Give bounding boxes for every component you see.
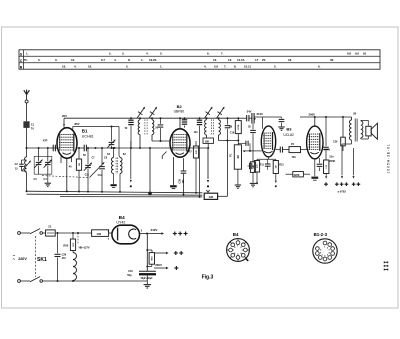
- resistor P2: [289, 147, 301, 159]
- IFT2 primary coil S6: [205, 118, 207, 138]
- capacitor C29: [55, 233, 67, 281]
- label UY42: [116, 221, 125, 225]
- tube B2 envelope: [170, 129, 190, 157]
- label C3: [34, 178, 38, 181]
- capacitor C22: [278, 117, 284, 130]
- P1 wiper arrow: [243, 150, 251, 152]
- code a-9782: [338, 189, 347, 193]
- label C31: [127, 270, 153, 280]
- svg-text:C16: C16: [230, 132, 235, 135]
- svg-text:B4: B4: [119, 215, 125, 220]
- svg-text:200K: 200K: [329, 160, 335, 163]
- label 220V: [13, 253, 47, 263]
- IFT1 right capacitor C12: [158, 118, 164, 141]
- wire wiper to triode grid: [250, 150, 262, 152]
- bus junction blob: [148, 192, 152, 196]
- label UBF80: [174, 109, 185, 113]
- oscillator trimmer C8: [107, 126, 115, 149]
- svg-text:8.: 8.: [128, 58, 131, 62]
- speaker: [366, 123, 378, 139]
- svg-text:85V: 85V: [75, 122, 80, 126]
- IFT2 left capacitor C15: [194, 117, 203, 196]
- capacitor C17: [238, 115, 252, 121]
- svg-text:1005H-3E-61: 1005H-3E-61: [387, 143, 391, 173]
- svg-text:~: ~: [13, 257, 16, 262]
- capacitor C1: [23, 121, 34, 130]
- mains terminal top: [18, 232, 30, 235]
- IFT1 core: [145, 119, 147, 134]
- triode cathode resistor R11: [254, 159, 259, 184]
- resistor R27: [92, 230, 112, 237]
- label 50 IFT1: [125, 127, 128, 130]
- svg-text:6.7: 6.7: [101, 58, 105, 62]
- arrow tap 3: [147, 263, 168, 269]
- IFT1 left capacitor C11: [128, 118, 133, 148]
- svg-text:B1-2-3: B1-2-3: [314, 232, 328, 237]
- variable capacitor C7a: [84, 147, 92, 192]
- svg-text:220V: 220V: [18, 257, 27, 261]
- pentode load resistor R16: [324, 151, 329, 179]
- svg-text:4.: 4.: [114, 58, 117, 62]
- svg-text:470K: 470K: [237, 124, 240, 130]
- decoupling capacitor C26: [341, 116, 346, 151]
- IFT2 trimmers: [205, 107, 225, 119]
- oscillator coil S2: [111, 147, 117, 187]
- variable capacitor C6: [44, 147, 52, 183]
- arrow tap 2: [147, 250, 168, 254]
- svg-text:220K: 220K: [294, 174, 300, 177]
- svg-text:10.11: 10.11: [244, 65, 251, 69]
- tube B4 rectifier: [112, 225, 140, 244]
- svg-text:15K: 15K: [205, 140, 210, 143]
- label socket B1-2-3: [314, 232, 328, 237]
- svg-text:a-9782: a-9782: [338, 189, 347, 193]
- table row C numbers: [24, 58, 335, 62]
- svg-text:16.: 16.: [88, 65, 92, 69]
- trimmer C2: [15, 160, 27, 171]
- cathode capacitor C24: [317, 158, 323, 171]
- socket B4 view: [227, 239, 250, 262]
- secondary return: [352, 148, 354, 179]
- label C4: [44, 178, 48, 181]
- IFT1 secondary coil S5: [151, 117, 154, 141]
- svg-text:19.20.: 19.20.: [149, 58, 157, 62]
- wire fuse to B4: [55, 232, 91, 234]
- label R11: [260, 163, 265, 166]
- svg-text:47n: 47n: [62, 257, 67, 260]
- IFT1 trimmers: [137, 107, 157, 119]
- svg-text:240V: 240V: [324, 148, 330, 151]
- tube B3 pentode: [307, 126, 323, 159]
- capacitor C19 chain: [250, 123, 256, 161]
- switch link dashed: [35, 236, 37, 277]
- svg-text:C31: C31: [128, 270, 133, 273]
- label C16: [230, 132, 235, 135]
- gang coupling dashed: [42, 176, 90, 178]
- svg-text:10n: 10n: [194, 131, 199, 134]
- svg-text:HB=127V: HB=127V: [79, 247, 90, 250]
- table row S numbers: [26, 52, 367, 56]
- row label R: [20, 65, 23, 69]
- svg-text:C26: C26: [333, 140, 338, 143]
- svg-text:50µ: 50µ: [127, 274, 132, 277]
- label C8: [104, 156, 108, 159]
- volume potentiometer P1: [229, 141, 241, 170]
- svg-text:20V: 20V: [62, 114, 67, 118]
- resistor R2: [69, 147, 82, 191]
- mains bottom wire: [57, 280, 148, 282]
- chassis ground PSU: [144, 281, 152, 288]
- mains switch bottom: [30, 277, 58, 283]
- svg-text:5.: 5.: [38, 58, 41, 62]
- ground P1: [235, 169, 241, 188]
- svg-text:1.: 1.: [141, 58, 144, 62]
- svg-text:15n: 15n: [329, 156, 334, 159]
- row label C: [20, 59, 23, 63]
- svg-text:1M: 1M: [79, 163, 81, 166]
- svg-text:R26: R26: [63, 243, 68, 247]
- svg-text:720: 720: [292, 156, 297, 159]
- triode cathode node: [257, 157, 276, 159]
- resistor R13: [273, 159, 278, 187]
- wire C1 to node A: [26, 128, 28, 148]
- node A junction: [26, 147, 28, 149]
- label P2: [291, 143, 295, 146]
- capacitor C4 grid: [43, 138, 57, 151]
- svg-text:UCL82: UCL82: [283, 133, 294, 137]
- svg-text:7.: 7.: [224, 65, 227, 69]
- tap label HB 127V: [78, 233, 90, 250]
- svg-text:C30: C30: [178, 178, 181, 183]
- tuning gang frame: [34, 156, 52, 174]
- svg-text:47P: 47P: [43, 138, 48, 142]
- svg-text:9.: 9.: [318, 65, 321, 69]
- svg-text:9.0: 9.0: [355, 52, 359, 56]
- arrow 210V out: [147, 228, 164, 235]
- pickup socket GR: [204, 193, 217, 199]
- label UCH81: [82, 135, 94, 139]
- label S3: [123, 153, 127, 156]
- wire IFT1 to B2 grid: [152, 140, 170, 142]
- mains switch top: [30, 229, 46, 235]
- svg-text:B3: B3: [286, 127, 292, 132]
- svg-text:Fig.3: Fig.3: [202, 274, 214, 280]
- screen resistor R7: [193, 141, 198, 192]
- label UCL82: [283, 133, 294, 137]
- tone capacitor C25: [323, 117, 335, 163]
- variable capacitor C7: [90, 148, 105, 192]
- svg-text:10n: 10n: [182, 179, 185, 184]
- IFT1 primary coil S4: [138, 117, 141, 148]
- svg-text:C1: C1: [31, 122, 35, 126]
- svg-text:75.: 75.: [24, 58, 28, 62]
- IFT2 right capacitor C16: [225, 118, 231, 140]
- cathode bypass capacitor C27: [248, 163, 255, 169]
- svg-text:7.: 7.: [221, 52, 224, 56]
- label 24V: [247, 110, 252, 114]
- socket B1-2-3 view: [313, 239, 337, 263]
- svg-text:1.: 1.: [160, 65, 163, 69]
- label S2: [107, 153, 111, 156]
- oscillator feed: [119, 127, 120, 158]
- svg-text:C10: C10: [85, 175, 90, 177]
- wire detector: [219, 140, 240, 142]
- svg-text:210V: 210V: [257, 112, 264, 116]
- svg-text:5.: 5.: [126, 65, 129, 69]
- label B2: [177, 104, 183, 109]
- label R7: [189, 150, 193, 153]
- variable capacitor C3: [34, 147, 42, 174]
- svg-text:14.15.: 14.15.: [237, 58, 245, 62]
- svg-text:8.: 8.: [234, 65, 237, 69]
- svg-text:3.: 3.: [55, 58, 58, 62]
- IFT2 secondary coil S7: [219, 118, 221, 140]
- dial pointer arrow: [130, 141, 132, 187]
- pickup connector: [206, 185, 209, 192]
- svg-text:R: R: [20, 65, 23, 69]
- fuse Z1: [46, 225, 56, 236]
- wire grid bus left: [27, 147, 58, 149]
- label C5 50: [83, 154, 86, 157]
- svg-text:18: 18: [288, 58, 292, 62]
- diode load resistor R9: [229, 117, 241, 140]
- wiper branch: [238, 141, 250, 151]
- svg-text:R13: R13: [279, 163, 284, 166]
- plus single tap: [174, 266, 178, 270]
- wire 200V: [300, 113, 352, 127]
- label S6: [353, 113, 357, 116]
- mains terminal bottom: [18, 280, 30, 283]
- svg-text:B4: B4: [233, 232, 239, 237]
- supply plus double b: [352, 182, 360, 186]
- svg-text:24V: 24V: [247, 110, 252, 114]
- svg-text:UBF80: UBF80: [174, 109, 185, 113]
- resistor R14 220K: [286, 172, 311, 177]
- capacitor C14 below B2: [178, 158, 186, 196]
- svg-text:C11: C11: [98, 175, 103, 177]
- svg-text:4.: 4.: [204, 65, 207, 69]
- label C7: [92, 156, 96, 159]
- supply plus single: [324, 182, 328, 186]
- svg-text:30.: 30.: [330, 58, 334, 62]
- svg-text:1M: 1M: [237, 155, 240, 158]
- caption Fig.3: [202, 274, 214, 280]
- svg-text:UCH81: UCH81: [82, 135, 94, 139]
- svg-text:200V: 200V: [155, 263, 162, 267]
- supply plus triple b: [335, 182, 348, 186]
- bus wire upper: [26, 190, 203, 194]
- label B1: [82, 129, 88, 134]
- wire B4 output: [139, 233, 148, 235]
- wire secondary to speaker: [361, 120, 369, 139]
- row label S: [20, 52, 23, 56]
- svg-text:13.: 13.: [228, 58, 232, 62]
- svg-text:2.: 2.: [109, 52, 112, 56]
- svg-text:UY42: UY42: [116, 221, 125, 225]
- svg-text:B1: B1: [82, 129, 88, 134]
- svg-text:16.: 16.: [62, 65, 66, 69]
- coil core S2 S3: [116, 158, 118, 175]
- wire 85V supply: [73, 122, 119, 129]
- tube B2 cathode: [170, 157, 177, 189]
- ground at gang: [45, 183, 51, 186]
- antenna coil S1: [22, 148, 31, 191]
- HT riser: [146, 234, 148, 272]
- svg-text:25.: 25.: [262, 58, 266, 62]
- svg-text:5.6: 5.6: [214, 65, 218, 69]
- svg-text:50µF+50µF: 50µF+50µF: [141, 278, 154, 280]
- svg-text:SK1: SK1: [37, 257, 47, 263]
- page marks III: [384, 261, 388, 270]
- svg-text:4.: 4.: [146, 52, 149, 56]
- svg-text:Z1: Z1: [48, 225, 52, 229]
- plate coupling capacitor C23: [276, 147, 289, 153]
- svg-text:27K: 27K: [196, 150, 198, 154]
- capacitor C18 big: [248, 113, 254, 129]
- bus wire lower: [27, 193, 203, 198]
- antenna connector: [25, 100, 28, 103]
- svg-text:6.: 6.: [207, 52, 210, 56]
- code 1005H-3E-61: [387, 143, 391, 173]
- svg-text:4.: 4.: [74, 65, 77, 69]
- IFT1 link dots: [130, 117, 162, 119]
- output transformer primary: [350, 117, 352, 144]
- svg-text:2.: 2.: [274, 65, 277, 69]
- output transformer core: [355, 119, 357, 142]
- electrolytic C31: [139, 271, 156, 275]
- svg-text:210V: 210V: [151, 228, 158, 232]
- capacitor C5 series: [77, 145, 95, 152]
- svg-text:200V: 200V: [309, 113, 316, 117]
- plate capacitor C13: [182, 117, 187, 128]
- tube B1 cathode lead: [61, 157, 72, 192]
- wire AVC drop: [149, 148, 151, 194]
- pickup arrow: [207, 148, 209, 183]
- oscillator coil S3: [120, 158, 122, 192]
- tube B2 plate lead: [179, 117, 181, 129]
- pin numbers B4: [108, 229, 143, 241]
- svg-text:1.: 1.: [26, 52, 29, 56]
- svg-text:1M: 1M: [276, 165, 278, 168]
- wire P2 to pentode: [301, 149, 308, 151]
- tube B2 grid return: [162, 152, 166, 160]
- wire 20V rail: [62, 114, 238, 128]
- antenna: [24, 90, 30, 100]
- wire antenna to C1: [26, 103, 28, 121]
- label B3: [286, 127, 292, 132]
- pentode cathode: [311, 159, 318, 180]
- IFT2 core: [211, 119, 213, 135]
- plus triple HT: [173, 232, 188, 236]
- wire grid bus right: [95, 147, 209, 149]
- table frame (alignment strip): [19, 50, 380, 69]
- svg-text:91: 91: [363, 52, 367, 56]
- label 240V: [324, 148, 330, 151]
- svg-text:17: 17: [255, 58, 259, 62]
- transformer primary feed: [341, 144, 352, 179]
- svg-text:C: C: [20, 59, 23, 63]
- svg-text:10.: 10.: [71, 58, 75, 62]
- tube B1 envelope: [57, 128, 77, 159]
- output transformer secondary: [361, 120, 363, 139]
- tube B3 triode: [261, 126, 275, 157]
- barretter coil S8: [73, 251, 77, 282]
- table row R numbers: [62, 65, 321, 69]
- label R13: [279, 163, 284, 166]
- IFT2 link dots: [206, 117, 229, 119]
- wire GR right riser: [218, 141, 228, 197]
- wire C31 to ground: [146, 275, 148, 281]
- label 50 IFT1b: [155, 127, 158, 130]
- resistor R8: [203, 138, 214, 149]
- svg-text:103: 103: [96, 232, 101, 236]
- resistor R26: [63, 233, 75, 251]
- plus double tap: [174, 251, 183, 255]
- svg-text:R11: R11: [260, 163, 265, 166]
- resistor R28: [147, 253, 154, 267]
- svg-text:3.: 3.: [122, 52, 125, 56]
- label B4: [119, 215, 125, 220]
- svg-text:5.: 5.: [160, 52, 163, 56]
- wire 210V: [253, 112, 281, 129]
- label socket B4: [233, 232, 239, 237]
- svg-text:12.: 12.: [213, 58, 217, 62]
- svg-text:6.8: 6.8: [347, 52, 351, 56]
- capacitor C28: [265, 159, 271, 170]
- label C26: [333, 140, 338, 143]
- resistor R10: [250, 162, 256, 187]
